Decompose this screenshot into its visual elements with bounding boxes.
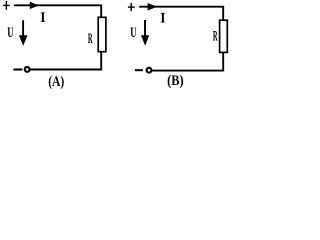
- node + terminal of circuit B: [128, 3, 135, 11]
- svg-text:R: R: [88, 31, 93, 46]
- svg-text:U: U: [7, 25, 14, 41]
- resistor R of circuit A: [98, 17, 106, 51]
- wire: top wire of circuit B from + terminal to resistor R (B): [139, 7, 223, 21]
- current arrow I on top wire of circuit A: [30, 2, 39, 9]
- svg-text:R: R: [213, 29, 218, 44]
- svg-text:(B): (B): [167, 72, 183, 89]
- svg-text:I: I: [40, 9, 45, 24]
- voltage arrow U (downward) circuit A: [19, 20, 28, 46]
- svg-text:(A): (A): [48, 72, 64, 89]
- terminal circle (open node) circuit A: [25, 67, 30, 72]
- voltage arrow U (downward) circuit B: [141, 20, 149, 46]
- wire: top wire of circuit A from + terminal to resistor R (A): [14, 5, 101, 17]
- wire: bottom wire of circuit B from terminal to resistor: [152, 53, 223, 71]
- terminal circle (open node) circuit B: [147, 68, 152, 73]
- wire: bottom wire of circuit A from terminal to resistor: [30, 52, 101, 70]
- resistor R of circuit B: [220, 20, 228, 52]
- node - terminal mark of circuit B: [135, 69, 143, 71]
- svg-text:I: I: [160, 10, 165, 25]
- node + terminal of circuit A: [3, 1, 9, 10]
- current arrow I on top wire of circuit B: [148, 3, 158, 11]
- svg-text:U: U: [130, 25, 137, 41]
- node - terminal mark of circuit A: [13, 69, 22, 71]
